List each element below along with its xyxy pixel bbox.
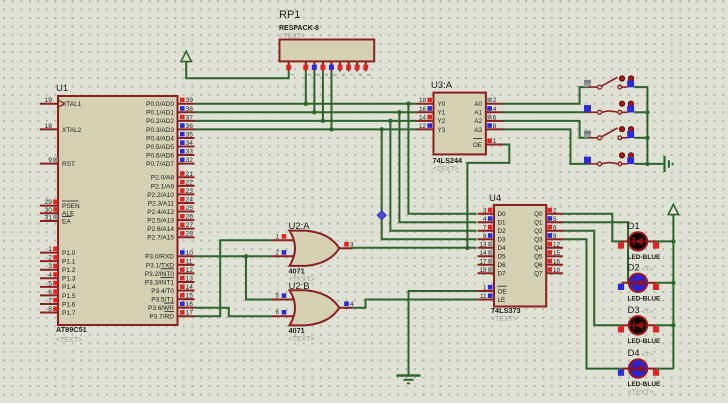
junction LED bus (671, 281, 675, 285)
svg-text:P1.4: P1.4 (62, 284, 76, 291)
svg-text:U4: U4 (489, 193, 501, 204)
U1 pin 10 P3.0/RXD (145, 250, 194, 261)
U1 pin 24 P2.3/A11 (148, 196, 195, 207)
U1 pin 22 P2.1/A9 (151, 179, 195, 190)
svg-text:Y0: Y0 (438, 101, 446, 108)
U1 pin 11 P3.1/TXD (146, 258, 195, 269)
svg-text:2: 2 (493, 97, 497, 104)
svg-text:8: 8 (48, 306, 52, 313)
svg-text:P0.5/AD5: P0.5/AD5 (146, 144, 174, 151)
RP1 pin 7 (346, 61, 355, 76)
svg-text:P1.3: P1.3 (62, 276, 76, 283)
svg-text:11: 11 (186, 258, 193, 265)
U1 pin 5 P1.4 (40, 280, 76, 291)
junction switch bus (645, 110, 649, 114)
svg-text:19: 19 (45, 97, 53, 104)
RP1 pin 5 (329, 61, 338, 76)
svg-text:A2: A2 (474, 118, 482, 125)
U1 pin 30 ALE (40, 207, 75, 218)
svg-text:Y2: Y2 (438, 118, 446, 125)
svg-text:P2.1/A9: P2.1/A9 (151, 183, 175, 190)
svg-text:OE: OE (498, 288, 507, 295)
svg-text:U2:A: U2:A (289, 221, 311, 232)
svg-text:D4: D4 (498, 245, 507, 252)
resistor pack RP1 RESPACK-8 body (279, 9, 374, 61)
wire P0.1 bus to U3 Y1 (195, 111, 418, 113)
svg-text:P3.5/T1: P3.5/T1 (151, 297, 174, 304)
U1 pin 1 P1.0 (40, 246, 76, 257)
wire LED cathode bus to power (672, 214, 674, 369)
U4 pin 17 D6 (478, 258, 507, 269)
svg-text:16: 16 (553, 258, 561, 265)
U4 pin 19 Q7 (534, 267, 563, 278)
svg-text:37: 37 (186, 114, 194, 121)
svg-text:D0: D0 (498, 211, 507, 218)
svg-text:P1.0: P1.0 (62, 250, 76, 257)
svg-text:3: 3 (483, 207, 487, 214)
U3 pin 16 Y1 (417, 106, 446, 117)
svg-text:RESPACK-8: RESPACK-8 (279, 25, 319, 32)
svg-text:P2.2/A10: P2.2/A10 (147, 192, 174, 199)
svg-text:D1: D1 (498, 220, 507, 227)
svg-text:AT89C51: AT89C51 (56, 325, 87, 334)
svg-text:14: 14 (186, 284, 194, 291)
wire P3.0 to U2:A input 2 (195, 255, 273, 257)
svg-text:LED-BLUE: LED-BLUE (628, 381, 662, 388)
U1 pin 4 P1.3 (40, 272, 76, 283)
svg-text:Q6: Q6 (534, 262, 543, 269)
U3 pin 8 A3 (474, 123, 502, 134)
RP1 pin 6 (338, 61, 347, 76)
wire U3 A1 to switch 2 (503, 111, 589, 113)
U1 pin 7 P1.6 (40, 297, 76, 308)
svg-text:4071: 4071 (289, 267, 305, 276)
ground right (switches) (663, 156, 665, 172)
svg-text:34: 34 (186, 140, 194, 147)
U1 pin 38 P0.1/AD1 (146, 106, 194, 117)
svg-text:A3: A3 (474, 127, 482, 134)
U4 pin 4 D1 (478, 216, 507, 227)
switch at y=137.8 (open) (584, 127, 634, 140)
svg-text:27: 27 (186, 222, 194, 229)
U1 pin 19 XTAL1 (40, 97, 82, 108)
svg-text:D1: D1 (628, 221, 640, 232)
svg-text:P3.2/INT0: P3.2/INT0 (145, 271, 175, 278)
svg-text:Q5: Q5 (534, 254, 543, 261)
svg-text:Y3: Y3 (438, 127, 446, 134)
svg-text:22: 22 (186, 179, 194, 186)
svg-text:12: 12 (553, 241, 561, 248)
latch U4 74LS373 body (489, 193, 546, 323)
switch at y=112.3 (closed) (584, 101, 634, 114)
svg-text:P0.4/AD4: P0.4/AD4 (146, 135, 174, 142)
svg-text:A1: A1 (474, 110, 482, 117)
wire switch outputs bus (634, 87, 647, 164)
svg-text:4: 4 (48, 272, 52, 279)
power arrow right (668, 204, 678, 214)
U3 pin 2 A0 (474, 97, 502, 108)
svg-text:D4: D4 (628, 348, 640, 359)
svg-text:P0.2/AD2: P0.2/AD2 (146, 118, 174, 125)
svg-text:P1.5: P1.5 (62, 293, 76, 300)
svg-text:6: 6 (553, 224, 557, 231)
RP1 pin 2 (303, 61, 312, 76)
U4 pin 2 Q0 (534, 207, 563, 218)
junction RP1-P0.3 (329, 127, 333, 131)
svg-text:LED-BLUE: LED-BLUE (628, 254, 662, 261)
svg-text:Q0: Q0 (534, 211, 543, 218)
svg-text:P1.6: P1.6 (62, 301, 76, 308)
svg-text:P3.1/TXD: P3.1/TXD (146, 262, 174, 269)
LED D3 LED-BLUE (618, 305, 661, 345)
U1 pin 9 RST (40, 157, 75, 168)
svg-text:5: 5 (48, 280, 52, 287)
svg-text:7: 7 (48, 297, 52, 304)
svg-text:5: 5 (553, 216, 557, 223)
junction P0.1 branch (397, 110, 401, 114)
or-gate U2:A 4071 (272, 221, 354, 284)
RP1 pin 4 (320, 61, 329, 76)
U1 XTAL1 clock mark (58, 100, 65, 107)
junction P3.0 branch (244, 254, 248, 258)
svg-text:4: 4 (483, 216, 487, 223)
U4 pin 3 D0 (478, 207, 507, 218)
U4 pin 15 Q5 (534, 250, 563, 261)
LED D1 LED-BLUE (618, 221, 661, 261)
svg-text:P0.6/AD6: P0.6/AD6 (146, 152, 174, 159)
svg-text:<T>: <T> (642, 266, 654, 273)
svg-text:<T>: <T> (642, 352, 654, 359)
wire LED D4 cathode (656, 368, 673, 370)
svg-text:P3.3/INT1: P3.3/INT1 (145, 279, 175, 286)
U1 pin 39 P0.0/AD0 (146, 97, 194, 108)
svg-text:17: 17 (186, 310, 194, 317)
svg-text:P3.6/WR: P3.6/WR (148, 305, 174, 312)
wire RP1 pin1 to power arrow (186, 62, 289, 79)
svg-text:P2.4/A12: P2.4/A12 (147, 209, 174, 216)
U1 pin 6 P1.5 (40, 289, 76, 300)
LED D2 LED-BLUE (618, 262, 661, 302)
junction P0.3 branch (380, 127, 384, 131)
svg-text:1: 1 (483, 285, 487, 292)
svg-text:33: 33 (186, 149, 194, 156)
U4 pin 6 Q2 (534, 224, 563, 235)
svg-text:D7: D7 (498, 271, 507, 278)
wire RP1 pin 2 drop to P0.0 (305, 71, 307, 103)
svg-text:D5: D5 (498, 254, 507, 261)
svg-text:D3: D3 (498, 237, 507, 244)
U1 pin 18 XTAL2 (40, 123, 82, 134)
wire RP1 pin 3 drop to P0.1 (313, 71, 315, 112)
U1 pin 31 EA (40, 215, 72, 226)
svg-text:Q3: Q3 (534, 237, 543, 244)
svg-text:28: 28 (186, 231, 194, 238)
U3 pin 14 Y2 (417, 114, 446, 125)
svg-text:6: 6 (48, 289, 52, 296)
svg-text:P2.5/A13: P2.5/A13 (147, 218, 174, 225)
svg-text:36: 36 (186, 123, 194, 130)
svg-text:9: 9 (553, 233, 557, 240)
svg-text:P1.1: P1.1 (62, 259, 76, 266)
svg-text:15: 15 (553, 250, 561, 257)
svg-text:P0.3/AD3: P0.3/AD3 (146, 127, 174, 134)
svg-text:<TEXT>: <TEXT> (433, 166, 459, 173)
svg-text:EA: EA (62, 218, 71, 225)
junction U2:A out / U3 OE branch (465, 246, 469, 250)
U1 pin 14 P3.4/T0 (151, 284, 194, 295)
switch at y=163.9 (closed) (584, 153, 634, 166)
svg-text:P0.7/AD7: P0.7/AD7 (146, 161, 174, 168)
U1 pin 28 P2.7/A15 (147, 231, 194, 242)
svg-text:6: 6 (493, 114, 497, 121)
wire U3 A2 to switch 3 (503, 121, 589, 138)
svg-text:1: 1 (275, 233, 279, 240)
U1 pin 34 P0.5/AD5 (146, 140, 194, 151)
U1 pin 15 P3.5/T1 (151, 293, 194, 304)
wire P3.7 to U2:A input 1 (195, 240, 273, 316)
svg-text:P3.4/T0: P3.4/T0 (151, 288, 174, 295)
wire P0.3 bus to U3 Y3 (195, 128, 418, 130)
U4 pin 13 D4 (478, 241, 507, 252)
wire P3.0 branch to U2:B input 5 (246, 256, 272, 299)
U1 pin 29 PSEN (40, 199, 80, 210)
svg-text:25: 25 (186, 205, 194, 212)
svg-text:<TEXT>: <TEXT> (491, 316, 517, 323)
svg-text:23: 23 (186, 188, 194, 195)
junction LED bus (671, 239, 675, 243)
svg-text:P2.0/A8: P2.0/A8 (151, 175, 175, 182)
wire P0.3 branch to U4 D3 (382, 129, 477, 239)
wire P0.2 branch to U4 D2 (390, 121, 476, 231)
svg-text:D2: D2 (628, 262, 640, 273)
wire P0.2 bus to U3 Y2 (195, 120, 418, 122)
svg-text:P1.2: P1.2 (62, 267, 76, 274)
svg-text:5: 5 (275, 293, 279, 300)
svg-text:3: 3 (350, 242, 354, 249)
junction LED bus (671, 323, 675, 327)
svg-text:3: 3 (48, 263, 52, 270)
svg-text:OE: OE (473, 142, 482, 149)
RP1 pin 8 (355, 61, 364, 76)
svg-text:PSEN: PSEN (62, 203, 80, 210)
wire U4 Q2 to LED D3 (563, 231, 622, 325)
wire U4 Q1 to LED D2 (563, 222, 628, 282)
U4 pin 1 OE (478, 285, 507, 296)
RP1 pin 3 (312, 61, 321, 76)
wire P3.6 to U2:B input 6 (195, 308, 273, 317)
buffer U3:A 74LS244 body (431, 80, 486, 173)
svg-text:12: 12 (186, 267, 194, 274)
svg-text:U2:B: U2:B (289, 281, 310, 292)
wire P0.1 branch to U4 D1 (399, 112, 476, 222)
U4 pin 14 D5 (478, 250, 507, 261)
junction P0.2 branch (388, 119, 392, 123)
junction switch bus (645, 136, 649, 140)
svg-text:14: 14 (479, 250, 487, 257)
wire to right ground (647, 163, 663, 165)
svg-text:39: 39 (186, 97, 194, 104)
svg-text:D2: D2 (498, 228, 507, 235)
svg-text:6: 6 (275, 309, 279, 316)
svg-text:15: 15 (186, 293, 194, 300)
U1 pin 23 P2.2/A10 (147, 188, 194, 199)
svg-text:U3:A: U3:A (431, 80, 453, 91)
junction switch bus to ground (645, 162, 649, 166)
origin marker (blue diamond) on D3 branch (377, 211, 386, 220)
svg-text:P2.6/A14: P2.6/A14 (147, 226, 174, 233)
svg-text:18: 18 (479, 267, 487, 274)
svg-text:16: 16 (186, 301, 194, 308)
svg-text:P1.7: P1.7 (62, 310, 76, 317)
svg-text:LED-BLUE: LED-BLUE (628, 295, 662, 302)
wire U2:A output to U4 D4 and U3 OE (352, 247, 476, 249)
U4 pin 18 D7 (478, 267, 507, 278)
svg-text:2: 2 (275, 249, 279, 256)
ground bottom (U4 OE) (397, 374, 421, 376)
U3 pin 6 A2 (474, 114, 502, 125)
U3 pin 4 A1 (474, 106, 502, 117)
svg-text:2: 2 (553, 207, 557, 214)
U4 pin 11 LE (478, 293, 506, 304)
U1 pin 33 P0.6/AD6 (146, 149, 194, 160)
svg-text:18: 18 (45, 123, 53, 130)
svg-text:P2.7/A15: P2.7/A15 (147, 235, 174, 242)
U1 pin 8 P1.7 (40, 306, 76, 317)
svg-text:XTAL2: XTAL2 (62, 127, 82, 134)
U3 pin 18 Y0 (417, 97, 446, 108)
svg-text:U1: U1 (56, 83, 68, 94)
U1 pin 12 P3.2/INT0 (145, 267, 195, 278)
svg-text:RST: RST (62, 161, 75, 168)
svg-text:XTAL1: XTAL1 (62, 101, 82, 108)
svg-text:19: 19 (553, 267, 561, 274)
svg-text:LED-BLUE: LED-BLUE (628, 338, 662, 345)
U3 pin 12 Y3 (417, 123, 446, 134)
svg-text:31: 31 (45, 215, 53, 222)
U4 pin 8 D3 (478, 233, 507, 244)
svg-text:29: 29 (45, 199, 53, 206)
svg-text:<TEXT>: <TEXT> (289, 336, 315, 343)
U1 pin 37 P0.2/AD2 (146, 114, 194, 125)
U1 pin 13 P3.3/INT1 (145, 275, 195, 286)
svg-text:13: 13 (186, 275, 194, 282)
junction RP1-P0.2 (321, 119, 325, 123)
wire U4 OE to ground (409, 291, 478, 375)
svg-text:16: 16 (419, 106, 427, 113)
switch at y=87.1 (open) (584, 76, 634, 89)
wire RP1 pin 4 drop to P0.2 (322, 71, 324, 120)
RP1 pin 1 (286, 61, 295, 76)
wire U4 Q3 to LED D4 (563, 239, 622, 368)
svg-text:7: 7 (483, 224, 487, 231)
svg-text:4: 4 (493, 106, 497, 113)
svg-text:32: 32 (186, 157, 194, 164)
svg-text:8: 8 (483, 233, 487, 240)
svg-text:74LS244: 74LS244 (433, 156, 464, 165)
svg-text:RP1: RP1 (279, 9, 300, 21)
wire P0.0 bus to U3 Y0 (195, 103, 418, 105)
svg-text:<TEXT>: <TEXT> (628, 390, 654, 397)
svg-text:<TEXT>: <TEXT> (56, 337, 82, 344)
svg-text:A0: A0 (474, 101, 482, 108)
LED D4 LED-BLUE (618, 348, 661, 388)
U4 pin 12 Q4 (534, 241, 563, 252)
svg-text:14: 14 (419, 114, 427, 121)
power arrow left (181, 51, 191, 61)
U1 pin 3 P1.2 (40, 263, 76, 274)
svg-text:21: 21 (186, 171, 194, 178)
svg-text:Q4: Q4 (534, 245, 543, 252)
RP1 pin 9 (363, 61, 372, 76)
svg-text:1: 1 (493, 138, 497, 145)
svg-text:10: 10 (186, 250, 194, 257)
U4 pin 9 Q3 (534, 233, 563, 244)
svg-text:P2.3/A11: P2.3/A11 (148, 200, 175, 207)
svg-text:35: 35 (186, 131, 194, 138)
svg-text:Y1: Y1 (438, 110, 446, 117)
svg-text:Q1: Q1 (534, 220, 543, 227)
U4 pin 16 Q6 (534, 258, 563, 269)
U1 pin 2 P1.1 (40, 255, 76, 266)
U1 pin 36 P0.3/AD3 (146, 123, 194, 134)
svg-text:24: 24 (186, 196, 194, 203)
junction RP1-P0.0 (304, 102, 308, 106)
svg-text:74LS373: 74LS373 (491, 306, 521, 315)
svg-text:12: 12 (419, 123, 427, 130)
U1 pin 35 P0.4/AD4 (146, 131, 194, 142)
svg-text:D6: D6 (498, 262, 507, 269)
wire U3 A3 to switch 4 (503, 129, 589, 164)
svg-text:<T>: <T> (642, 308, 654, 315)
svg-text:Q2: Q2 (534, 228, 543, 235)
junction P0.0 branch (406, 102, 410, 106)
or-gate U2:B 4071 (272, 281, 354, 343)
svg-text:1: 1 (48, 246, 52, 253)
wire U3 A0 to switch 1 (503, 87, 589, 104)
svg-text:D3: D3 (628, 305, 640, 316)
wire P0.0 branch to U4 D0 (408, 104, 476, 214)
wire U2:B output to U4 LE (352, 300, 477, 308)
U4 pin 7 D2 (478, 224, 507, 235)
svg-text:<TEXT>: <TEXT> (279, 33, 305, 40)
U1 pin 25 P2.4/A12 (147, 205, 194, 216)
svg-text:P0.1/AD1: P0.1/AD1 (146, 110, 174, 117)
U1 pin 32 P0.7/AD7 (146, 157, 194, 168)
svg-text:30: 30 (45, 207, 53, 214)
svg-text:8: 8 (493, 123, 497, 130)
svg-text:4071: 4071 (289, 326, 305, 335)
svg-text:26: 26 (186, 214, 194, 221)
U1 pin 17 P3.7/RD (149, 310, 194, 321)
U1 pin 21 P2.0/A8 (151, 171, 195, 182)
U1 pin 27 P2.6/A14 (147, 222, 194, 233)
svg-text:4: 4 (350, 301, 354, 308)
svg-text:2: 2 (48, 255, 52, 262)
junction RP1-P0.1 (312, 110, 316, 114)
svg-text:P0.0/AD0: P0.0/AD0 (146, 101, 174, 108)
wire U4 Q0 to LED D1 (563, 214, 622, 242)
svg-text:P3.0/RXD: P3.0/RXD (145, 254, 174, 261)
svg-text:11: 11 (480, 293, 487, 300)
wire RP1 pin 5 drop to P0.3 (330, 71, 332, 129)
svg-text:Q7: Q7 (534, 271, 543, 278)
svg-text:LE: LE (498, 297, 506, 304)
svg-text:9: 9 (48, 157, 52, 164)
svg-text:13: 13 (479, 241, 487, 248)
svg-text:17: 17 (479, 258, 487, 265)
U1 pin 16 P3.6/WR (148, 301, 195, 312)
svg-text:18: 18 (419, 97, 427, 104)
